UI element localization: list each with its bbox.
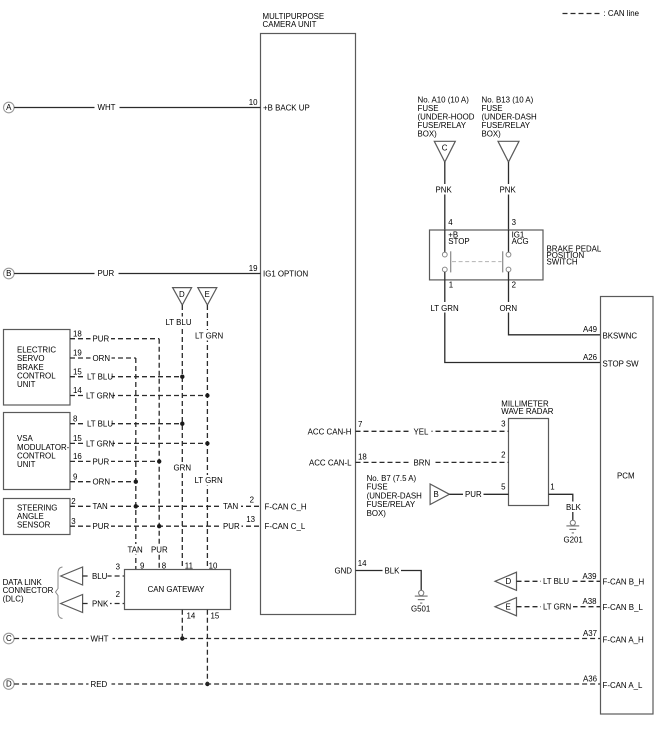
svg-text:UNIT: UNIT: [17, 380, 36, 389]
svg-text:STOP: STOP: [448, 237, 469, 246]
data link connector label: [3, 578, 54, 603]
svg-text:BLK: BLK: [566, 503, 582, 512]
svg-text:5: 5: [501, 483, 506, 492]
svg-text:C: C: [442, 144, 448, 153]
DLC triangle pin 2: [61, 595, 83, 613]
wire PNK fuse B13 to switch pin 3: [499, 162, 520, 230]
brake pedal position switch box: [430, 230, 602, 280]
svg-text:A26: A26: [583, 353, 598, 362]
svg-text:2: 2: [116, 590, 120, 599]
wire VSA pin 15 LT GRN: [70, 434, 207, 449]
svg-text:E: E: [204, 290, 209, 299]
node C: [4, 633, 15, 644]
svg-text:ACG: ACG: [512, 237, 529, 246]
wire ESB pin 18 PUR: [70, 329, 159, 344]
wire GND BLK camera pin 14 to G501: [334, 559, 421, 590]
legend CAN line: [563, 9, 640, 18]
svg-text:3: 3: [71, 517, 76, 526]
svg-text:(DLC): (DLC): [3, 594, 24, 603]
wire PUR fuse B to radar pin 5: [449, 483, 508, 500]
fuse B7 label: [367, 474, 423, 518]
svg-text:LT BLU: LT BLU: [166, 318, 192, 327]
svg-text:15: 15: [73, 434, 82, 443]
svg-text:15: 15: [211, 611, 220, 620]
svg-text:F-CAN C_L: F-CAN C_L: [265, 522, 306, 531]
DLC triangle pin 3: [61, 567, 83, 585]
wire LT GRN switch pin 1 to PCM A26: [430, 280, 640, 369]
svg-text:8: 8: [73, 414, 78, 423]
wire VSA pin 16 PUR: [70, 452, 159, 467]
connector E triangle (top): [198, 288, 217, 305]
wire SAS pin 2 TAN F-CAN C_H: [70, 495, 307, 511]
svg-text:STOP SW: STOP SW: [603, 360, 640, 369]
svg-text:SWITCH: SWITCH: [547, 258, 578, 267]
gateway bottom pin 15 wire: [207, 610, 219, 684]
svg-text:LT GRN: LT GRN: [431, 304, 460, 313]
svg-text:GND: GND: [334, 567, 352, 576]
svg-text:LT BLU: LT BLU: [87, 373, 113, 382]
svg-text:15: 15: [73, 367, 82, 376]
svg-text:F-CAN C_H: F-CAN C_H: [265, 502, 307, 511]
svg-text:LT BLU: LT BLU: [543, 577, 569, 586]
svg-text:LT GRN: LT GRN: [195, 476, 224, 485]
svg-text:WHT: WHT: [98, 103, 116, 112]
steering angle sensor box: [4, 499, 71, 535]
svg-text:ORN: ORN: [93, 478, 111, 487]
svg-text:A49: A49: [583, 325, 598, 334]
svg-text:BLK: BLK: [385, 567, 401, 576]
svg-text:TAN: TAN: [128, 545, 143, 554]
switch left contact: [442, 230, 450, 280]
svg-text:2: 2: [71, 497, 75, 506]
wire ESB pin 15 LT BLU: [70, 367, 182, 382]
electric servo brake control unit box: [4, 330, 71, 406]
wire PNK fuse C to switch pin 4: [435, 162, 456, 230]
svg-text:FUSE/RELAY: FUSE/RELAY: [367, 500, 416, 509]
connector D triangle (PCM side): [495, 572, 517, 590]
svg-text:CAMERA UNIT: CAMERA UNIT: [263, 20, 317, 29]
svg-text:PUR: PUR: [93, 457, 110, 466]
svg-text:PUR: PUR: [151, 545, 168, 554]
svg-text:LT GRN: LT GRN: [195, 331, 224, 340]
wire LT GRN to PCM A38: [517, 597, 644, 612]
svg-text:A36: A36: [583, 675, 598, 684]
CAN gateway box: [125, 570, 231, 610]
svg-text:2: 2: [501, 451, 505, 460]
svg-text:BLU: BLU: [92, 572, 108, 581]
wire ACC CAN-L BRN camera pin 18 to radar pin 2: [309, 451, 509, 468]
wire VSA pin 9 ORN: [70, 472, 136, 487]
svg-text:14: 14: [358, 559, 367, 568]
svg-text:PNK: PNK: [92, 599, 109, 608]
svg-text:D: D: [179, 290, 185, 299]
svg-text:No. B7 (7.5 A): No. B7 (7.5 A): [367, 474, 417, 483]
ground G201: [564, 520, 583, 544]
svg-text:YEL: YEL: [414, 427, 430, 436]
svg-text:GRN: GRN: [174, 464, 192, 473]
svg-text:D: D: [6, 680, 12, 689]
svg-text:A38: A38: [582, 597, 597, 606]
svg-text:2: 2: [512, 280, 516, 289]
connector E triangle (PCM side): [495, 598, 517, 616]
svg-text:ORN: ORN: [93, 354, 111, 363]
svg-text:BOX): BOX): [482, 130, 502, 139]
svg-text:13: 13: [246, 515, 255, 524]
PCM box: [601, 297, 654, 715]
svg-text:9: 9: [73, 472, 78, 481]
svg-text:BOX): BOX): [418, 130, 438, 139]
wire ESB pin 14 LT GRN: [70, 386, 207, 401]
svg-text:19: 19: [73, 349, 82, 358]
wire B PUR to camera pin 19: [14, 264, 308, 279]
svg-text:LT BLU: LT BLU: [87, 420, 113, 429]
wire PNK DLC to gateway pin 2: [83, 590, 125, 609]
svg-text:19: 19: [249, 264, 258, 273]
connector D triangle (top): [173, 288, 192, 305]
svg-text:PUR: PUR: [465, 490, 482, 499]
wire ESB pin 19 ORN: [70, 349, 136, 364]
switch mechanical link: [452, 261, 502, 263]
svg-text:18: 18: [73, 329, 82, 338]
svg-text:A39: A39: [582, 572, 597, 581]
svg-text:D: D: [506, 577, 512, 586]
wire A WHT to camera pin 10: [14, 98, 310, 113]
svg-text:TAN: TAN: [93, 502, 108, 511]
svg-text:LT GRN: LT GRN: [86, 391, 115, 400]
wire VSA pin 8 LT BLU: [70, 414, 182, 429]
svg-text:+B BACK UP: +B BACK UP: [263, 103, 310, 112]
DLC brace: [56, 567, 63, 619]
svg-text:PCM: PCM: [617, 472, 635, 481]
svg-text:3: 3: [501, 420, 506, 429]
bus LT GRN vertical: [193, 305, 224, 571]
svg-text:UNIT: UNIT: [17, 460, 36, 469]
VSA modulator-control unit box: [4, 413, 71, 490]
fuse triangle B: [430, 484, 449, 505]
svg-text:SENSOR: SENSOR: [17, 521, 51, 530]
fuse A10 label: [418, 96, 475, 139]
svg-text:PUR: PUR: [98, 269, 115, 278]
svg-text:14: 14: [187, 611, 196, 620]
svg-text:14: 14: [73, 386, 82, 395]
svg-text:WAVE RADAR: WAVE RADAR: [501, 407, 553, 416]
svg-text:F-CAN B_L: F-CAN B_L: [603, 603, 644, 612]
bus PUR vertical (F-CAN C_L): [149, 339, 170, 571]
svg-text:LT GRN: LT GRN: [543, 603, 572, 612]
svg-text:RED: RED: [91, 680, 108, 689]
wire radar pin 1 BLK to G201: [549, 483, 582, 521]
svg-text:LT GRN: LT GRN: [86, 439, 115, 448]
svg-text:1: 1: [449, 280, 453, 289]
svg-text:CAN GATEWAY: CAN GATEWAY: [148, 585, 206, 594]
fuse triangle B13: [498, 141, 519, 162]
svg-text:3: 3: [512, 218, 517, 227]
svg-text:WHT: WHT: [91, 634, 109, 643]
gateway bottom pin 14 wire: [182, 610, 196, 639]
svg-text:(UNDER-DASH: (UNDER-DASH: [367, 491, 423, 500]
bus TAN vertical (F-CAN C_H): [126, 358, 147, 571]
svg-text:E: E: [506, 603, 511, 612]
svg-text:7: 7: [358, 420, 362, 429]
svg-text:F-CAN B_H: F-CAN B_H: [603, 578, 645, 587]
junction dots: [134, 375, 210, 687]
svg-text:BRN: BRN: [414, 459, 431, 468]
svg-text:B: B: [434, 490, 439, 499]
switch right contact: [503, 230, 511, 280]
wire BLU DLC to gateway pin 3: [83, 562, 125, 581]
svg-text:A: A: [6, 103, 12, 112]
ground G501: [411, 590, 430, 613]
svg-text:4: 4: [448, 218, 453, 227]
svg-text:2: 2: [250, 495, 254, 504]
svg-text:F-CAN A_H: F-CAN A_H: [603, 636, 645, 645]
svg-text:PNK: PNK: [500, 186, 517, 195]
wire ORN switch pin 2 to PCM A49: [499, 280, 638, 341]
svg-text:: CAN line: : CAN line: [604, 9, 640, 18]
multipurpose camera unit box: [261, 12, 356, 615]
svg-text:PUR: PUR: [93, 335, 110, 344]
node D: [4, 679, 15, 690]
svg-text:PNK: PNK: [436, 186, 453, 195]
svg-text:BKSWNC: BKSWNC: [603, 331, 638, 340]
svg-text:C: C: [6, 634, 12, 643]
wire ACC CAN-H YEL camera pin 7 to radar pin 3: [308, 420, 509, 437]
svg-text:1: 1: [550, 483, 554, 492]
wire SAS pin 3 PUR F-CAN C_L: [70, 515, 306, 531]
svg-text:A37: A37: [583, 629, 597, 638]
wire C WHT F-CAN A_H: [14, 629, 644, 645]
svg-text:FUSE: FUSE: [367, 483, 388, 492]
svg-text:BOX): BOX): [367, 509, 387, 518]
svg-text:ACC CAN-L: ACC CAN-L: [309, 459, 352, 468]
millimeter wave radar box: [501, 400, 553, 506]
fuse C triangle: [434, 141, 455, 162]
svg-text:F-CAN A_L: F-CAN A_L: [603, 681, 644, 690]
svg-text:ACC CAN-H: ACC CAN-H: [308, 427, 352, 436]
svg-text:IG1 OPTION: IG1 OPTION: [263, 269, 308, 278]
wire LT BLU to PCM A39: [517, 572, 645, 587]
svg-text:TAN: TAN: [223, 502, 238, 511]
svg-text:B: B: [6, 269, 11, 278]
svg-text:10: 10: [249, 98, 258, 107]
bus LT BLU / GRN vertical: [164, 305, 194, 571]
node A: [4, 102, 15, 113]
svg-text:3: 3: [116, 562, 121, 571]
fuse B13 label: [482, 96, 538, 139]
svg-text:16: 16: [73, 452, 82, 461]
wire D RED F-CAN A_L: [14, 675, 643, 691]
svg-text:G501: G501: [411, 605, 430, 614]
svg-text:G201: G201: [564, 535, 583, 544]
svg-text:PUR: PUR: [93, 522, 110, 531]
node B: [4, 268, 15, 279]
svg-text:ORN: ORN: [500, 304, 518, 313]
svg-text:PUR: PUR: [223, 522, 240, 531]
svg-text:18: 18: [358, 452, 367, 461]
